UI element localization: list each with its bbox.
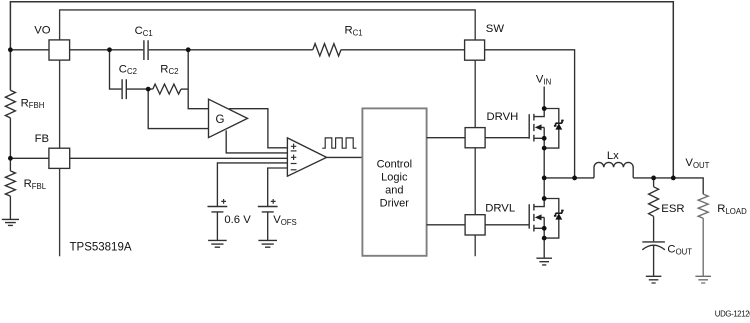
- wire switch node to Q2 drain: [543, 178, 545, 199]
- ground below RLOAD: [695, 276, 711, 283]
- control logic block: [362, 108, 426, 255]
- svg-text:CC2: CC2: [119, 63, 137, 76]
- wire comp vertical to G upper input: [188, 50, 208, 109]
- wire RC2 to comp vertical: [181, 88, 188, 90]
- minus mark input5: [291, 169, 297, 171]
- svg-text:RC2: RC2: [160, 63, 178, 76]
- voltage source 0.6V: [208, 207, 228, 212]
- svg-text:RFBL: RFBL: [24, 178, 47, 191]
- svg-text:RC1: RC1: [345, 25, 363, 38]
- wire left rail mid segment: [9, 118, 11, 171]
- voltage source VOFS: [258, 207, 278, 212]
- svg-text:ESR: ESR: [661, 203, 684, 215]
- ground below 0.6V: [208, 240, 227, 247]
- wire SW to switch node: [485, 50, 575, 178]
- svg-text:CC1: CC1: [135, 25, 153, 38]
- comparator U1: [287, 138, 326, 176]
- svg-text:Logic: Logic: [381, 171, 408, 183]
- wire FB row: [10, 157, 287, 159]
- resistor RLOAD: [698, 194, 708, 218]
- junction node comp vertical: [186, 47, 191, 52]
- plus sign 0.6V: [221, 199, 226, 204]
- svg-text:RLOAD: RLOAD: [717, 203, 747, 216]
- pin VO: [49, 40, 70, 60]
- transistor Q2 low-side MOSFET: [529, 199, 544, 239]
- inductor Lx: [594, 162, 633, 178]
- svg-text:RFBH: RFBH: [21, 97, 45, 110]
- ground below RFBL: [2, 219, 19, 225]
- wire CC2 to junction: [127, 88, 153, 90]
- plus mark input3: [291, 155, 296, 160]
- wire Q1 source to switch node: [543, 148, 545, 178]
- svg-text:and: and: [385, 184, 403, 196]
- junction node CC2 RC2: [146, 87, 151, 92]
- square wave symbol: [322, 138, 356, 148]
- wire VOFS to comparator: [268, 168, 288, 207]
- transistor Q1 high-side MOSFET: [529, 109, 544, 149]
- svg-text:UDG-12120: UDG-12120: [715, 310, 750, 319]
- plus sign VOFS: [271, 199, 276, 204]
- junction node D2 return: [542, 236, 547, 241]
- svg-text:0.6 V: 0.6 V: [224, 214, 251, 226]
- svg-text:COUT: COUT: [667, 244, 692, 257]
- junction node ESR branch: [651, 176, 656, 181]
- svg-text:VOFS: VOFS: [273, 214, 297, 227]
- wire Q2 source to ground: [543, 238, 545, 258]
- junction node FB rail: [8, 156, 13, 161]
- wire comp branch down from VO row: [110, 50, 122, 89]
- wire DRVH: [427, 137, 530, 139]
- junction node VOUT feedback: [671, 176, 676, 181]
- minus mark input2: [291, 150, 297, 152]
- junction node VIN drain: [542, 106, 547, 111]
- junction node comp branch: [107, 47, 112, 52]
- minus mark input4: [291, 163, 297, 165]
- ground below COUT: [646, 276, 662, 283]
- junction node switch SW: [572, 176, 577, 181]
- wire CC2 junction to G lower input: [148, 89, 208, 129]
- resistor RC2: [153, 84, 181, 94]
- junction node switch Q1: [542, 176, 547, 181]
- diode D2 body diode low-side: [544, 199, 564, 239]
- op-amp G: [209, 99, 248, 137]
- resistor RFBL: [5, 171, 15, 196]
- wire RLOAD to ground: [702, 218, 704, 276]
- wire ESR branch: [653, 178, 655, 187]
- junction node Q1 source stub: [542, 136, 547, 141]
- svg-text:VOUT: VOUT: [685, 157, 709, 170]
- resistor RFBH: [5, 90, 15, 118]
- wire VOUT feedback top rail: [10, 2, 673, 178]
- wire COUT to ground: [653, 245, 655, 276]
- capacitor COUT: [642, 241, 665, 243]
- resistor ESR: [649, 187, 659, 216]
- wire 0.6V to comparator: [217, 163, 287, 207]
- ground below Q2: [536, 258, 552, 265]
- wire VO row: [10, 49, 464, 51]
- wire comparator output: [327, 156, 363, 158]
- svg-text:Lx: Lx: [607, 150, 619, 162]
- wire left rail lower segment: [9, 196, 11, 219]
- plus mark input1: [291, 144, 296, 149]
- svg-text:DRVH: DRVH: [487, 111, 519, 123]
- wire G output tap upper: [229, 109, 287, 148]
- diode D1 body diode high-side: [544, 109, 564, 149]
- pin DRVL: [465, 215, 485, 235]
- junction node Q2 source stub: [542, 226, 547, 231]
- pin DRVH: [465, 128, 485, 148]
- capacitor CC2: [122, 79, 126, 99]
- ground below VOFS: [258, 240, 277, 247]
- resistor RC1: [313, 44, 341, 56]
- svg-text:Driver: Driver: [380, 197, 410, 209]
- svg-text:VIN: VIN: [536, 74, 551, 87]
- svg-text:VO: VO: [34, 25, 51, 37]
- wire DRVL: [427, 224, 530, 226]
- svg-text:Control: Control: [377, 158, 412, 170]
- svg-text:DRVL: DRVL: [485, 203, 515, 215]
- pin SW: [465, 40, 485, 60]
- junction node Q2 drain: [542, 196, 547, 201]
- svg-text:SW: SW: [486, 23, 505, 35]
- chip boundary TPS53819A: [60, 10, 476, 256]
- wire VIN stem: [543, 87, 545, 109]
- svg-text:G: G: [216, 114, 225, 126]
- svg-text:TPS53819A: TPS53819A: [70, 241, 132, 253]
- junction node D1 return: [542, 146, 547, 151]
- wire switch node row: [544, 178, 703, 194]
- svg-text:FB: FB: [35, 133, 49, 145]
- wire ESR to COUT: [653, 216, 655, 241]
- capacitor CC1: [144, 40, 148, 60]
- junction node VO rail: [8, 47, 13, 52]
- pin FB: [49, 148, 70, 168]
- wire G output tap lower: [226, 130, 287, 153]
